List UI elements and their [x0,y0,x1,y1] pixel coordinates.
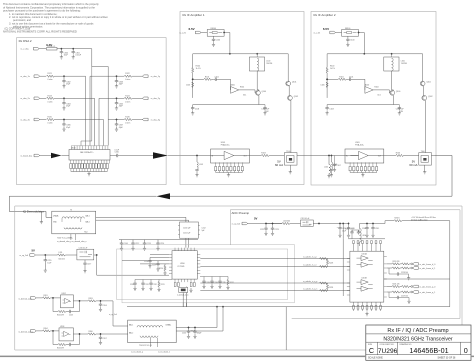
DSA input row 3 [21,117,160,132]
svg-text:R204: R204 [44,328,48,330]
block box Rx IF Amplifier 2 [311,12,436,186]
svg-text:C222: C222 [260,229,264,231]
svg-text:0.1uF: 0.1uF [115,150,120,152]
U200 top pins [175,248,194,251]
svg-text:U200: U200 [180,263,185,265]
wire amp1 output to amp2 [300,155,359,178]
ground [115,127,118,131]
capacitor C208 [194,328,196,330]
svg-text:C: C [369,346,374,355]
svg-text:rx_adcdrv_in_q_p: rx_adcdrv_in_q_p [303,281,317,283]
ground [227,173,230,177]
svg-text:R202 499: R202 499 [57,314,64,316]
block box Rx IF Amplifier 1 [180,12,304,185]
svg-text:C100: C100 [216,39,220,41]
resistor R100 [192,68,194,73]
svg-text:146456B-01: 146456B-01 [409,346,448,355]
svg-text:R206: R206 [89,331,93,333]
svg-text:C241: C241 [375,228,379,230]
svg-text:C106: C106 [186,85,190,87]
U201 right pins [384,256,387,297]
balun T100 [284,153,297,166]
feedback cap C101 [214,78,218,81]
svg-text:C230: C230 [130,284,134,286]
svg-text:Rx IF Amplifier 1: Rx IF Amplifier 1 [183,13,205,17]
svg-text:0 ohm: 0 ohm [125,101,130,103]
svg-text:BAL2: BAL2 [129,332,133,335]
svg-text:C217: C217 [87,264,91,266]
resistor R204 [43,330,51,332]
svg-text:680pF: 680pF [197,333,202,335]
DSA input row 2 [21,95,160,110]
svg-text:rx_band_dsa: rx_band_dsa [21,155,33,157]
svg-text:N320/N321 6GHz Transceiver: N320/N321 6GHz Transceiver [383,337,452,343]
bypass cap row [215,167,244,171]
capacitor C100 [213,36,215,37]
svg-text:R123: R123 [48,95,52,97]
ground [72,55,75,59]
wire bottom return [109,279,450,350]
left shunt caps of U200 [122,254,169,275]
svg-text:C216 0.1uF: C216 0.1uF [79,247,88,249]
svg-text:rx_dsa_3x: rx_dsa_3x [21,119,30,121]
svg-text:R125: R125 [48,117,52,119]
svg-text:T3: T3 [70,210,72,212]
svg-text:R201: R201 [44,295,48,297]
ground [212,42,215,46]
capacitor C225 [348,224,350,227]
svg-text:R103: R103 [261,152,265,154]
svg-text:T100: T100 [286,151,290,153]
title block [366,325,471,360]
ADC driver outputs [387,261,435,303]
svg-text:R120 0.5: R120 0.5 [48,46,56,48]
wire [57,49,108,141]
svg-text:L202 600: L202 600 [283,220,290,222]
svg-text:NATIONAL INSTRUMENTS CORP. A: NATIONAL INSTRUMENTS CORP. ALL RIGHTS RE… [3,29,77,33]
resistor R123 [47,97,55,99]
wire 5V to stage [94,255,169,275]
svg-text:Q101: Q101 [292,82,296,84]
ground [62,127,65,131]
wire DSA output [110,155,115,157]
transistor Q102 [288,96,293,101]
port rx_dsa_2y [143,97,149,100]
svg-text:47pF: 47pF [66,127,71,129]
svg-text:R122: R122 [125,73,129,75]
amplifier U201B [361,280,368,292]
capacitor C219 [157,261,159,263]
wire to amplifier 1 [168,155,216,157]
svg-text:C211 1pF: C211 1pF [183,233,190,235]
svg-text:0.01uF: 0.01uF [75,55,81,57]
ground [115,84,118,88]
svg-text:rx_demod_lo_in: rx_demod_lo_in [177,295,188,297]
ADC driver input networks [303,239,343,296]
crystal component Y200 [179,287,188,292]
wire balun out [297,155,300,157]
stage shield box A [117,249,288,300]
capacitor C103 [192,105,194,106]
svg-text:+1.1V 100 ohm diff Rx out DC B: +1.1V 100 ohm diff Rx out DC Bias [411,216,436,219]
svg-text:Rx DSA 2: Rx DSA 2 [19,39,32,43]
feedback cap C228 [389,268,396,274]
svg-text:C204: C204 [103,305,107,307]
svg-text:U201B: U201B [362,277,368,279]
op-amp stage I U202 [18,293,127,326]
svg-text:CODE IDENT NO.: CODE IDENT NO. [380,344,395,346]
U201 bottom bypass row [353,302,382,316]
ground [60,55,63,59]
svg-text:0 ohm: 0 ohm [48,79,53,81]
wire vocm bias [342,239,344,296]
wire bias to driver pullup [402,221,450,279]
wire right half row2 [99,97,124,99]
input shunt L103/C104 [196,155,197,156]
amplifier interior (instance 1) [179,27,300,177]
capacitor C306 [63,120,65,123]
svg-text:6.5V: 6.5V [189,27,195,31]
svg-text:rx_vp_5v0: rx_vp_5v0 [109,313,117,316]
svg-text:UNBAL: UNBAL [53,215,59,218]
5V supply row [19,247,169,275]
capacitor C230 [133,282,136,286]
svg-text:R221 226: R221 226 [393,284,400,286]
svg-text:47pF: 47pF [66,106,71,108]
svg-text:U101: U101 [221,142,226,144]
svg-text:5V: 5V [32,248,36,252]
U200 right pins [197,254,200,273]
transistor Q100 [256,90,261,95]
svg-text:10uF: 10uF [342,230,346,232]
capacitor C304 [63,98,65,101]
svg-text:1k 1%: 1k 1% [196,68,201,70]
svg-text:30.1: 30.1 [243,95,246,97]
ADC driver U201 [347,251,387,302]
block box ADC Preamp [230,210,460,319]
wire bypass rail [119,240,198,251]
svg-text:C103: C103 [195,109,199,111]
U200 lower bypass caps right [200,277,234,290]
svg-text:BAL1: BAL1 [86,215,90,218]
svg-text:Tbal: Tbal [84,231,88,233]
filter network FL201 [301,220,314,226]
ground [62,106,65,110]
resistor R120 [47,48,58,51]
capacitor C215 [44,255,46,258]
block box Rx DSA 2 [17,38,167,185]
svg-text:BAL2: BAL2 [86,220,90,223]
wires stage to ADC driver [200,259,350,291]
svg-text:rx_dsa_2y: rx_dsa_2y [151,98,160,100]
arrow signal flow [51,153,61,158]
block box demod/ADC outer [15,206,462,350]
svg-text:C201 0.1uF: C201 0.1uF [301,218,310,220]
svg-text:C231: C231 [145,284,149,286]
svg-text:rx_v_dsa: rx_v_dsa [21,49,30,51]
filter network FL200 [77,249,94,260]
svg-text:C229 100: C229 100 [401,295,408,297]
svg-text:0: 0 [464,346,468,355]
resistor R124 [124,97,132,99]
output resistor R206 [73,333,88,335]
output row I- [387,267,392,269]
arrow signal return [156,193,170,199]
feedback resistor R101 [204,78,212,80]
svg-text:U201A: U201A [362,252,368,255]
U201 top bypass row [345,229,385,252]
resistor R223 termination [326,260,328,265]
wire demod to attenuator pair [96,217,189,222]
svg-text:UNBAL: UNBAL [166,324,172,327]
capacitor C211 [121,240,123,242]
resistor R126 [124,118,132,120]
svg-text:rx_adc_frame_q_0: rx_adc_frame_q_0 [420,285,436,288]
U101 bottom pins [216,162,243,166]
svg-text:0 ohm: 0 ohm [125,123,130,125]
balun output network [176,307,223,339]
wire bias bottom [193,104,259,106]
ground on demod input [40,212,43,224]
svg-text:7U296: 7U296 [378,348,398,355]
svg-text:47pF: 47pF [119,106,124,108]
PGA U101 [211,149,250,163]
DSA signal input [21,150,217,159]
wire power row [39,48,46,50]
svg-text:R224: R224 [329,287,333,289]
svg-text:0 ohm: 0 ohm [125,79,130,81]
svg-text:C210 1pF: C210 1pF [183,228,190,230]
svg-text:ADC Preamp: ADC Preamp [232,211,250,215]
U200 bottom bypass caps [174,283,195,307]
svg-text:0 ohm: 0 ohm [48,101,53,103]
svg-text:47pF: 47pF [66,84,71,86]
attenuator pad AT200 [178,222,206,248]
inductor L203 [359,224,361,229]
U200 lower bypass caps left [130,280,172,292]
resistor R230 [394,220,402,222]
svg-text:L103: L103 [199,164,203,166]
driver U202 [61,295,74,308]
resistor R224 termination [326,284,328,289]
svg-text:rx_vp_5v0: rx_vp_5v0 [19,254,28,257]
capacitor C217 [84,260,86,262]
svg-text:rx_v_if1: rx_v_if1 [179,31,186,34]
capacitor C106 [192,82,194,87]
resistor R212 [227,280,229,285]
svg-text:FB100: FB100 [211,28,216,30]
transistor Q101 [286,81,291,86]
feedback loop R205/C205 [53,331,58,345]
svg-text:Q102: Q102 [294,96,298,98]
capacitor C241 [372,224,374,227]
wire bus verticals into U100 [81,67,108,146]
port rx_dsa_1y [143,75,149,78]
DSA input row 1 [21,73,160,88]
svg-text:GND: GND [53,221,58,223]
svg-text:LTC5585: LTC5585 [178,266,185,268]
svg-text:rx_trx_ifout2_p: rx_trx_ifout2_p [131,351,143,354]
wire drop to frame [285,307,287,350]
output row Q+ [387,286,392,288]
svg-text:C310: C310 [115,152,119,154]
capacitor C212 [132,240,134,242]
svg-text:PGA-103+: PGA-103+ [221,144,231,147]
balun T201 [128,320,177,354]
svg-text:rx_dsa_3y: rx_dsa_3y [151,119,160,121]
output resistor R203 [73,300,88,302]
svg-text:rx_dsa_2x: rx_dsa_2x [21,98,30,100]
wire to return [189,307,224,331]
arrow signal flow 2 [153,152,168,158]
ferrite bead FB100 network [207,30,224,37]
wire bias row [193,54,289,68]
svg-text:rx_dsa_1x: rx_dsa_1x [21,76,30,78]
amplifier A100 [231,87,239,94]
svg-text:DAT-15R5A-PP+: DAT-15R5A-PP+ [80,151,94,154]
capacitor C303 [116,76,118,79]
svg-text:10uF: 10uF [64,55,69,57]
svg-text:Rx IF Amplifier 2: Rx IF Amplifier 2 [314,13,336,17]
svg-text:C232: C232 [153,284,157,286]
svg-text:U203: U203 [60,326,64,328]
U100 bottom pins [71,160,110,164]
svg-text:C101: C101 [215,76,219,78]
capacitor C302 [63,76,65,79]
resistor R211 [158,282,160,287]
title block frame [366,325,471,360]
svg-text:R230 0: R230 0 [395,218,400,220]
wire right half row1 [90,75,124,77]
capacitor C218 [149,258,151,260]
ground [289,170,292,174]
balun T200 [52,210,96,244]
output row Q- [387,291,392,293]
svg-text:L102: L102 [324,167,328,169]
svg-text:C240: C240 [362,228,366,230]
svg-text:T200 TC1-1-13MA+: T200 TC1-1-13MA+ [57,237,73,240]
amplifier interior (instance 2) [314,27,435,177]
inductor L202 [282,222,290,224]
svg-text:C107: C107 [337,165,341,167]
svg-text:C206: C206 [182,333,186,335]
svg-text:C226 C227: C226 C227 [345,229,354,231]
svg-text:rx_adc_frame_d_0: rx_adc_frame_d_0 [420,263,436,266]
svg-text:SCALE NONE: SCALE NONE [368,357,383,360]
svg-text:10uF: 10uF [47,262,51,264]
svg-text:rx_dsa_1y: rx_dsa_1y [151,76,160,78]
svg-text:rx_vp_5v0: rx_vp_5v0 [232,223,240,225]
driver U203 [59,328,73,341]
svg-text:R223: R223 [329,263,333,265]
svg-text:C219: C219 [152,265,156,267]
capacitor C240 [360,221,395,224]
capacitor C310 [115,154,119,157]
svg-text:C223: C223 [275,229,279,231]
svg-text:R211: R211 [161,284,165,286]
capacitor C234 [210,280,213,284]
svg-text:+: + [337,227,339,229]
svg-text:A100: A100 [231,83,235,86]
capacitor C231 [141,282,144,286]
svg-text:Q100: Q100 [262,91,266,93]
svg-text:R203: R203 [89,298,93,300]
IQ demod IC U200 [169,248,200,282]
DSA attenuator U100 [69,146,110,176]
svg-text:rx_trx_ifout2_n: rx_trx_ifout2_n [158,351,170,354]
ground [365,312,368,316]
ground [62,84,65,88]
svg-text:744784: 744784 [266,63,272,65]
resistor R201 [43,297,51,299]
output row I+ [387,263,392,265]
shunt inductor L102 [328,156,330,165]
svg-text:rx_demod_xfmr_p rx_demod_xfm: rx_demod_xfmr_p rx_demod_xfmr_n [57,241,86,243]
U201 left pins [347,259,350,296]
port rx_dsa_3y [143,118,149,121]
svg-text:IQ Demodulator: IQ Demodulator [23,209,44,213]
capacitor C307 [116,120,118,123]
svg-text:R205 499: R205 499 [57,347,64,349]
capacitor C102 [264,105,266,106]
feedback cap C229 [389,292,396,298]
feedback loop R202/C203 [53,298,58,312]
svg-text:U100: U100 [71,147,76,149]
svg-text:60 mA: 60 mA [275,163,283,167]
svg-text:16V: 16V [266,111,270,113]
polarized cap C224 [339,224,341,227]
svg-text:1pF: 1pF [202,230,205,232]
svg-text:U202: U202 [62,293,66,295]
svg-text:Rx IF / IQ / ADC Preamp: Rx IF / IQ / ADC Preamp [387,328,448,334]
ground [87,172,90,176]
svg-text:47pF: 47pF [119,127,124,129]
svg-text:R126: R126 [125,117,129,119]
U100 top pins [72,146,108,150]
op-amp stage Q U203 [18,326,127,349]
disclaimer note text block [3,2,108,33]
capacitor C232 [149,282,152,286]
svg-text:rx_adcdrv_in_q_n: rx_adcdrv_in_q_n [303,289,317,291]
svg-text:R121: R121 [48,73,52,75]
series resistor R103 [261,154,269,156]
svg-text:rx_adc_frame_q_1: rx_adc_frame_q_1 [420,291,436,294]
U200 bottom pins [175,279,194,282]
capacitor C204 [100,301,102,303]
svg-text:R101: R101 [205,76,209,78]
shunt capacitor C107 [334,156,336,163]
sheet bottom border [0,356,366,358]
svg-text:IN: IN [212,155,214,157]
svg-text:L201: L201 [59,252,63,254]
svg-text:R104: R104 [240,87,244,89]
svg-text:C207: C207 [103,338,107,340]
capacitor C300 [60,50,63,54]
svg-text:C203: C203 [69,314,73,316]
inductor L201 [58,254,66,256]
resistor array RN100 [70,164,109,169]
resistor R210 [164,264,166,266]
svg-text:R210: R210 [159,268,163,270]
inductor L100 choke [249,57,264,71]
resistor R122 [124,75,132,77]
U200 left pins [169,254,172,273]
capacitor C226 [352,230,360,239]
svg-text:600 ohm: 600 ohm [59,258,66,260]
svg-text:C218: C218 [144,261,148,263]
wire right half row3 [108,119,124,121]
capacitor C235 [218,280,221,284]
